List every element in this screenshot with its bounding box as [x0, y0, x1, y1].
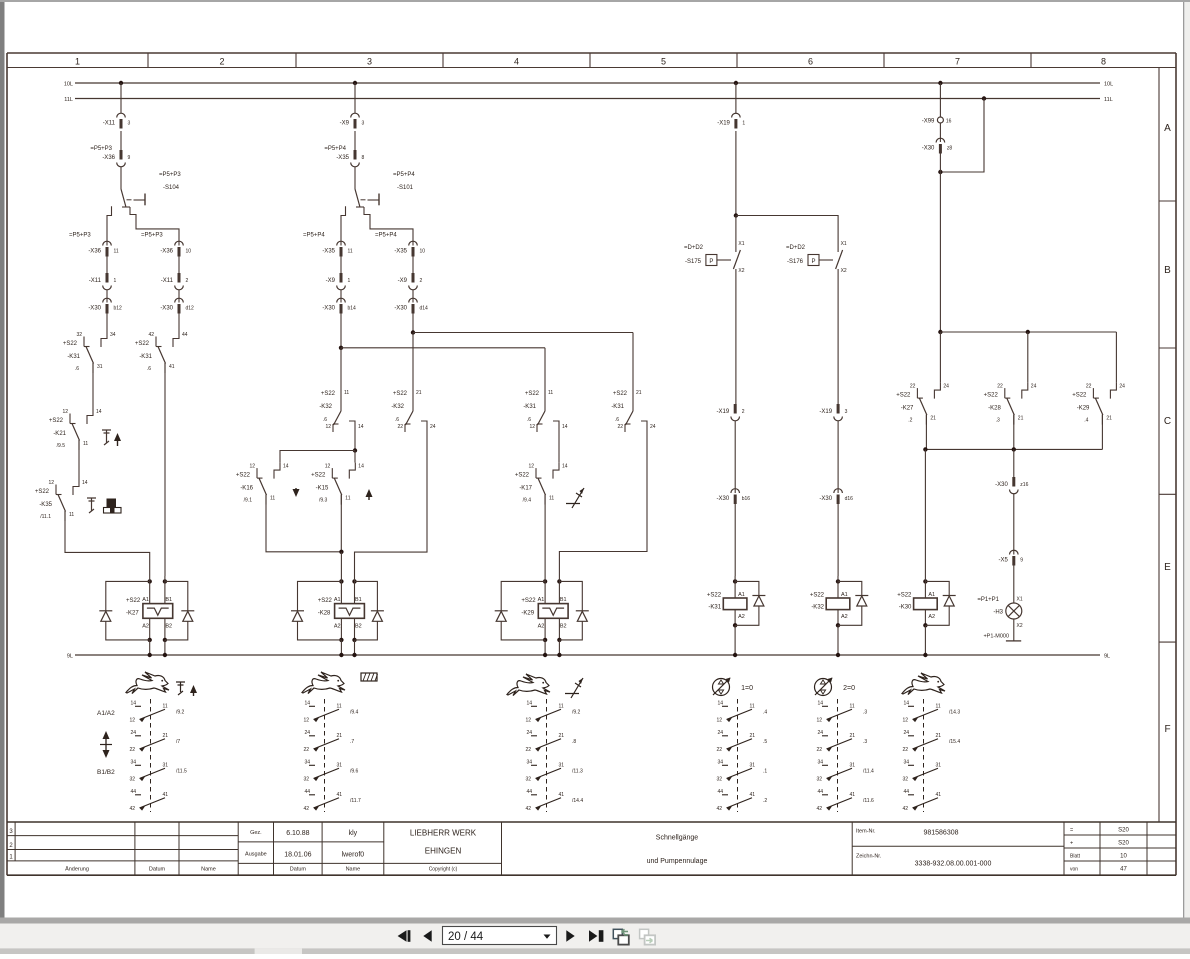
svg-text:31: 31 [163, 762, 169, 768]
node coil top B [163, 579, 167, 583]
wire: S101 left throw [341, 206, 346, 245]
svg-text:=P5+P3: =P5+P3 [69, 233, 91, 239]
wire [837, 421, 839, 493]
svg-text:12: 12 [48, 480, 54, 486]
svg-text:8: 8 [1101, 57, 1106, 67]
svg-text:-K29: -K29 [1077, 406, 1090, 412]
svg-text:-X35: -X35 [322, 249, 335, 255]
svg-text:9L: 9L [1104, 654, 1110, 660]
svg-text:44: 44 [903, 789, 909, 795]
svg-text:22: 22 [617, 424, 623, 430]
svg-text:44: 44 [304, 789, 310, 795]
svg-text:-S175: -S175 [685, 259, 702, 265]
contact row 44/42/41 [135, 794, 141, 796]
node [1012, 447, 1016, 451]
svg-text:31: 31 [936, 762, 942, 768]
svg-text:21: 21 [936, 733, 942, 739]
svg-text:32: 32 [303, 776, 309, 782]
svg-text:.8: .8 [572, 739, 576, 745]
node 9L [543, 653, 547, 657]
svg-text:A2: A2 [738, 614, 745, 620]
svg-text:B1: B1 [355, 597, 362, 603]
node [339, 638, 343, 642]
svg-text:Änderung: Änderung [65, 866, 89, 873]
contact row 34/32/31 [531, 764, 537, 766]
svg-text:/11.1: /11.1 [40, 514, 51, 520]
wire [735, 83, 737, 113]
svg-text:4: 4 [514, 57, 519, 67]
svg-text:-K21: -K21 [53, 431, 66, 437]
svg-text:10L: 10L [1104, 82, 1113, 88]
svg-text:Schnellgänge: Schnellgänge [656, 835, 699, 842]
node [353, 448, 357, 452]
svg-text:-X30: -X30 [394, 306, 407, 312]
wire to coil A1 [544, 495, 546, 576]
node [1026, 330, 1030, 334]
contact row 44/42/41 [908, 794, 914, 796]
wire [354, 429, 356, 451]
svg-text:/11.7: /11.7 [350, 798, 361, 804]
connector -X30 pin d14 [409, 298, 418, 302]
svg-text:+S22: +S22 [126, 598, 141, 604]
svg-text:14: 14 [358, 464, 364, 470]
svg-text:.5: .5 [763, 739, 767, 745]
svg-text:-K28: -K28 [988, 406, 1001, 412]
wire [78, 440, 80, 479]
svg-text:.6: .6 [147, 366, 151, 372]
svg-text:3338-932.08.00.001-000: 3338-932.08.00.001-000 [915, 861, 992, 868]
relay coil +S22 -K28 [335, 604, 365, 619]
wire [1013, 619, 1015, 641]
svg-text:-X36: -X36 [88, 249, 101, 255]
svg-text:21: 21 [163, 733, 169, 739]
svg-text:34: 34 [817, 759, 823, 765]
svg-text:34: 34 [903, 759, 909, 765]
svg-text:11: 11 [348, 249, 353, 255]
relay coil +S22 -K30 [924, 576, 926, 598]
icon: plug block [107, 499, 117, 508]
wire [106, 290, 108, 303]
svg-text:34: 34 [717, 759, 723, 765]
wire [734, 625, 736, 655]
svg-text:32: 32 [716, 776, 722, 782]
svg-text:9: 9 [1020, 558, 1023, 564]
icon: hare channel 1 [126, 672, 169, 694]
svg-text:=: = [1070, 828, 1073, 834]
svg-text:32: 32 [816, 776, 822, 782]
svg-text:+S22: +S22 [897, 593, 912, 599]
contact table dashed axis [546, 699, 548, 812]
svg-text:14: 14 [283, 464, 289, 470]
svg-text:44: 44 [182, 332, 188, 338]
svg-text:-X30: -X30 [995, 482, 1008, 488]
svg-text:-K32: -K32 [811, 605, 824, 611]
contact +S22 -K17 12/14/11 [553, 463, 559, 479]
svg-text:=P5+P4: =P5+P4 [393, 172, 415, 178]
svg-text:14: 14 [717, 700, 723, 706]
svg-text:-S176: -S176 [787, 259, 804, 265]
svg-text:von: von [1070, 867, 1078, 873]
contact row 34/32/31 [135, 764, 141, 766]
svg-text:/9.6: /9.6 [350, 768, 359, 774]
svg-text:-K16: -K16 [240, 486, 253, 492]
svg-text:B1: B1 [560, 597, 567, 603]
svg-text:LIEBHERR WERK: LIEBHERR WERK [410, 829, 477, 838]
svg-text:11: 11 [850, 703, 855, 709]
wire [120, 131, 122, 150]
connector -X5 pin 9 [1010, 550, 1019, 554]
wire: S101 right throw [364, 207, 413, 246]
contact +S22 -K16 12/14/11 [274, 463, 280, 479]
svg-text:42: 42 [148, 332, 154, 338]
node [733, 579, 737, 583]
node [938, 170, 942, 174]
wire [544, 576, 546, 604]
svg-text:47: 47 [1120, 867, 1127, 873]
icon: key switch [102, 430, 111, 445]
connector -X99 pin 16 [937, 117, 943, 123]
svg-text:11: 11 [163, 703, 168, 709]
icon: pump 1=0 channel 4 [713, 679, 730, 696]
svg-text:.6: .6 [395, 417, 399, 423]
svg-text:14: 14 [562, 424, 568, 430]
svg-text:12: 12 [525, 717, 531, 723]
suppressor diode [838, 581, 862, 595]
svg-text:-K31: -K31 [139, 354, 152, 360]
svg-text:11: 11 [548, 390, 553, 396]
icon: speed arrow crossed channel 3 [565, 678, 583, 698]
node coil top A [148, 579, 152, 583]
node [339, 550, 343, 554]
svg-text:EHINGEN: EHINGEN [425, 847, 462, 856]
contact row 44/42/41 [722, 794, 728, 796]
svg-text:22: 22 [816, 747, 822, 753]
svg-text:.2: .2 [908, 418, 912, 424]
svg-text:+S22: +S22 [896, 393, 911, 399]
svg-text:+S22: +S22 [515, 473, 530, 479]
svg-text:12: 12 [249, 464, 255, 470]
svg-text:31: 31 [750, 762, 756, 768]
svg-text:+S22: +S22 [393, 391, 408, 397]
svg-text:12: 12 [303, 717, 309, 723]
contact table dashed axis [837, 699, 839, 812]
svg-text:-X9: -X9 [326, 278, 336, 284]
svg-text:-K35: -K35 [39, 502, 52, 508]
svg-text:24: 24 [943, 384, 949, 390]
svg-text:1: 1 [348, 278, 351, 284]
wire [735, 216, 737, 241]
svg-text:44: 44 [817, 789, 823, 795]
svg-text:d12: d12 [186, 306, 195, 312]
svg-text:1: 1 [75, 57, 80, 67]
wire [149, 640, 151, 655]
svg-text:-K30: -K30 [899, 605, 912, 611]
svg-text:A2: A2 [142, 624, 149, 630]
svg-text:P: P [709, 259, 713, 265]
node coil top A [339, 579, 343, 583]
svg-text:24: 24 [650, 424, 656, 430]
svg-text:A1: A1 [334, 597, 341, 603]
svg-text:24: 24 [130, 730, 136, 736]
node 9L [148, 653, 152, 657]
contact row 34/32/31 [722, 764, 728, 766]
wire [734, 504, 736, 576]
wire [106, 257, 108, 274]
icon: key switch 2 [87, 498, 96, 513]
svg-text:-X19: -X19 [717, 121, 730, 127]
wire [412, 314, 414, 333]
contact row 24/22/21 [531, 735, 537, 737]
contact +S22 -K31 42/44/41 [173, 331, 179, 347]
svg-text:/9.2: /9.2 [176, 709, 185, 715]
wire [734, 421, 736, 493]
svg-text:+S22: +S22 [321, 391, 336, 397]
contact +S22 -K31 11/12/14 [538, 411, 546, 425]
svg-text:B2: B2 [165, 624, 172, 630]
svg-text:P: P [811, 259, 815, 265]
svg-text:44: 44 [526, 789, 532, 795]
node [938, 330, 942, 334]
svg-text:42: 42 [902, 806, 908, 812]
svg-text:/9.4: /9.4 [523, 498, 532, 504]
svg-text:5: 5 [661, 57, 666, 67]
svg-text:14: 14 [903, 700, 909, 706]
connector -X30 pin d12 [175, 298, 184, 302]
svg-text:C: C [1164, 416, 1171, 427]
wire [412, 257, 414, 274]
wire: feed left down [544, 348, 546, 411]
svg-text:.6: .6 [527, 417, 531, 423]
svg-text:-X11: -X11 [89, 278, 102, 284]
svg-text:11: 11 [344, 390, 349, 396]
svg-text:42: 42 [525, 806, 531, 812]
suppressor diode [925, 581, 949, 595]
contact row 24/22/21 [822, 735, 828, 737]
svg-text:10: 10 [1120, 854, 1127, 860]
svg-text:d16: d16 [845, 496, 854, 502]
contact row 34/32/31 [309, 764, 315, 766]
toolbar first-page button [398, 930, 407, 942]
svg-text:34: 34 [110, 332, 116, 338]
svg-text:12: 12 [529, 424, 535, 430]
node: distribution d14 [411, 330, 415, 334]
svg-text:21: 21 [1106, 416, 1112, 422]
svg-text:Gez.: Gez. [250, 830, 262, 836]
wire commons to rail [925, 415, 927, 450]
wire [340, 314, 342, 348]
svg-text:24: 24 [1119, 384, 1125, 390]
svg-text:Datum: Datum [149, 867, 166, 873]
status strip [0, 948, 1190, 954]
svg-text:-S104: -S104 [163, 185, 180, 191]
wire to K15 [354, 451, 356, 463]
svg-text:lwerof0: lwerof0 [342, 852, 365, 859]
node: distribution b14 [339, 346, 343, 350]
svg-text:21: 21 [559, 733, 565, 739]
svg-text:10L: 10L [64, 82, 73, 88]
svg-text:42: 42 [816, 806, 822, 812]
node: 10L junction channel 1 [119, 81, 123, 85]
toolbar [0, 924, 1190, 949]
svg-text:.3: .3 [863, 709, 867, 715]
toolbar prev button [423, 930, 431, 942]
svg-text:+S22: +S22 [1072, 393, 1087, 399]
svg-text:41: 41 [850, 792, 856, 798]
svg-text:+S22: +S22 [63, 341, 78, 347]
relay coil +S22 -K27 [143, 604, 173, 619]
contact +S22 -K32 11/12/14 [334, 411, 342, 425]
svg-text:6: 6 [808, 57, 813, 67]
contact row 44/42/41 [531, 794, 537, 796]
contact row 14/12/11 [309, 705, 315, 707]
connector -X30 pin b14 [337, 298, 346, 302]
svg-text:1: 1 [742, 121, 745, 127]
svg-text:41: 41 [169, 364, 175, 370]
contact table dashed axis [737, 699, 739, 812]
svg-text:A1: A1 [538, 597, 545, 603]
wire [149, 576, 151, 604]
svg-text:kly: kly [349, 830, 358, 837]
svg-text:44: 44 [717, 789, 723, 795]
svg-text:/9.1: /9.1 [244, 498, 253, 504]
node coil top B [557, 579, 561, 583]
toolbar page combo box [443, 927, 557, 945]
suppressor diode right [559, 581, 582, 610]
svg-text:2: 2 [186, 278, 189, 284]
svg-text:42: 42 [716, 806, 722, 812]
wire to coil K30 [924, 449, 926, 576]
wire [939, 83, 941, 117]
svg-text:21: 21 [636, 390, 642, 396]
bus 10L [75, 82, 1100, 84]
svg-text:41: 41 [936, 792, 942, 798]
svg-text:6.10.88: 6.10.88 [286, 830, 309, 837]
svg-text:11: 11 [936, 703, 941, 709]
connector -X30 pin b16 [731, 489, 740, 493]
suppressor diode right [355, 581, 378, 610]
svg-text:/11.3: /11.3 [572, 768, 583, 774]
svg-text:-X30: -X30 [322, 306, 335, 312]
svg-text:.4: .4 [1084, 418, 1088, 424]
svg-text:14: 14 [96, 409, 102, 415]
svg-text:+: + [1070, 841, 1073, 847]
connector -X9 pin 2 [412, 273, 415, 283]
icon: arrow up solid [366, 489, 373, 497]
wire: K32 24 to coil B1 [355, 429, 428, 576]
svg-text:12: 12 [129, 717, 135, 723]
contact +S22 -K21 12/14/11 [87, 408, 93, 424]
wire [837, 504, 839, 576]
svg-text:10: 10 [186, 249, 192, 255]
svg-text:-K31: -K31 [523, 404, 536, 410]
svg-text:=D+D2: =D+D2 [786, 245, 806, 251]
svg-text:981586308: 981586308 [923, 830, 958, 837]
svg-text:B2: B2 [560, 624, 567, 630]
contact +S22 -K15 12/14/11 [349, 463, 355, 479]
svg-text:Copyright (c): Copyright (c) [429, 867, 458, 873]
contact +S22 -K28 22/24/21 [1022, 383, 1028, 399]
svg-text:/9.4: /9.4 [350, 709, 359, 715]
svg-text:11: 11 [345, 496, 350, 502]
svg-text:-X36: -X36 [102, 155, 115, 161]
svg-text:Datum: Datum [290, 867, 307, 873]
contact row 44/42/41 [309, 794, 315, 796]
svg-text:21: 21 [930, 416, 936, 422]
contact row 14/12/11 [722, 705, 728, 707]
wire [1013, 494, 1015, 555]
wire branch to S176 [736, 216, 838, 241]
svg-text:1=0: 1=0 [741, 685, 753, 692]
svg-text:-K31: -K31 [708, 605, 721, 611]
svg-text:9L: 9L [67, 654, 73, 660]
svg-text:=P5+P4: =P5+P4 [303, 233, 325, 239]
contact +S22 -K32 21/22/24 [406, 411, 414, 425]
svg-text:11L: 11L [64, 97, 73, 103]
svg-text:.4: .4 [763, 709, 767, 715]
svg-text:-X35: -X35 [336, 155, 349, 161]
svg-text:-K28: -K28 [318, 611, 331, 617]
svg-text:-X35: -X35 [394, 249, 407, 255]
svg-text:22: 22 [525, 747, 531, 753]
svg-text:-X19: -X19 [717, 409, 730, 415]
svg-text:Blatt: Blatt [1070, 854, 1081, 860]
svg-text:12: 12 [816, 717, 822, 723]
wire [340, 640, 342, 655]
node: 10L junction channel 2 [353, 81, 357, 85]
svg-text:-X30: -X30 [819, 496, 832, 502]
toolbar rotate icon (disabled) [640, 929, 649, 938]
svg-text:12: 12 [325, 424, 331, 430]
node: 10L junction channel 6 [938, 81, 942, 85]
connector -X30 pin z8 [936, 138, 945, 142]
drawing frame border [7, 52, 1176, 54]
wire [412, 290, 414, 303]
contact row 24/22/21 [908, 735, 914, 737]
icon: hare channel 6 [902, 673, 945, 695]
svg-text:31: 31 [559, 762, 565, 768]
svg-text:11: 11 [559, 703, 564, 709]
svg-text:-X5: -X5 [998, 558, 1008, 564]
wire: feed to channel 3 left [341, 347, 545, 349]
wire [340, 576, 342, 604]
svg-text:-X11: -X11 [103, 121, 116, 127]
svg-text:=P5+P3: =P5+P3 [141, 233, 163, 239]
icon: speed arrow crossed [566, 488, 584, 508]
contact +S22 -K31 32/34/31 [101, 331, 107, 347]
connector -X19 pin 3 [837, 404, 840, 414]
svg-text:21: 21 [850, 733, 856, 739]
svg-text:d14: d14 [420, 306, 429, 312]
svg-text:und Pumpennulage: und Pumpennulage [647, 858, 708, 865]
wire [120, 167, 122, 189]
svg-text:2=0: 2=0 [843, 685, 855, 692]
wire [340, 552, 342, 576]
node 9L [836, 653, 840, 657]
svg-text:22: 22 [129, 747, 135, 753]
bus 9L [75, 654, 1100, 656]
svg-text:34: 34 [304, 759, 310, 765]
svg-text:11: 11 [69, 512, 74, 518]
svg-text:/11.5: /11.5 [176, 768, 187, 774]
svg-text:31: 31 [97, 364, 103, 370]
node [734, 213, 738, 217]
svg-text:44: 44 [130, 789, 136, 795]
svg-text:10: 10 [420, 249, 426, 255]
svg-text:18.01.06: 18.01.06 [284, 852, 311, 859]
svg-text:+S22: +S22 [49, 418, 64, 424]
wire [837, 625, 839, 655]
svg-text:+S22: +S22 [707, 593, 722, 599]
